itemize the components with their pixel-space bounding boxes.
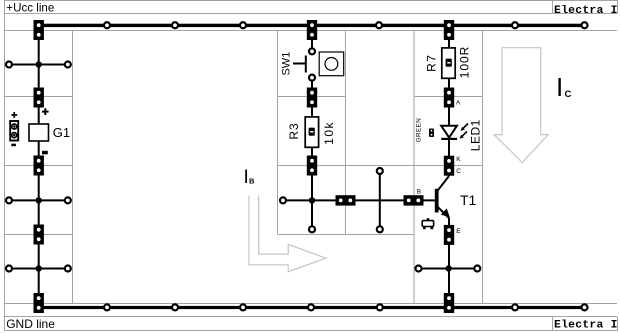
svg-text:10k: 10k: [322, 121, 336, 145]
svg-text:GND line: GND line: [6, 317, 55, 331]
svg-text:K: K: [456, 156, 461, 163]
svg-text:+Ucc line: +Ucc line: [6, 2, 54, 15]
svg-text:B: B: [417, 189, 421, 196]
svg-text:A: A: [456, 100, 461, 107]
svg-text:SW1: SW1: [281, 52, 293, 76]
svg-text:Electra I: Electra I: [554, 5, 618, 17]
svg-text:G1: G1: [53, 125, 70, 140]
svg-text:T1: T1: [460, 192, 477, 208]
svg-text:Electra I: Electra I: [554, 320, 618, 332]
svg-text:E: E: [456, 228, 461, 235]
svg-text:100R: 100R: [458, 46, 472, 79]
svg-text:I: I: [244, 167, 249, 188]
svg-text:R7: R7: [424, 54, 438, 72]
svg-text:C: C: [565, 89, 572, 100]
svg-text:C: C: [456, 168, 461, 175]
svg-text:R3: R3: [287, 122, 301, 139]
svg-text:GREEN: GREEN: [416, 118, 423, 143]
svg-text:I: I: [556, 72, 563, 102]
svg-text:LED1: LED1: [469, 119, 483, 151]
svg-text:B: B: [249, 177, 255, 186]
